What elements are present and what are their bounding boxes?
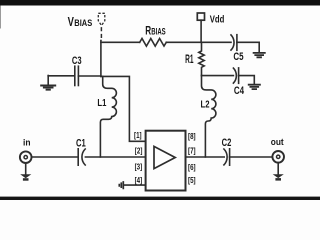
- svg-text:C4: C4: [234, 85, 245, 97]
- wire C1 to pin 2 with L1 junction: [85, 156, 145, 158]
- svg-text:R1: R1: [185, 53, 194, 66]
- capacitor C4: [233, 68, 238, 83]
- port out circle: [272, 151, 284, 163]
- ground for out port: [273, 163, 284, 181]
- svg-text:L2: L2: [201, 98, 210, 110]
- svg-text:[4]: [4]: [135, 176, 143, 185]
- ground for C4: [248, 85, 261, 89]
- op-amp block U1: [146, 131, 186, 191]
- ground for C3: [40, 76, 56, 90]
- svg-text:[8]: [8]: [188, 132, 196, 141]
- resistor R1: [199, 42, 204, 75]
- svg-text:C1: C1: [76, 137, 86, 149]
- wire VBIAS vertical down to C3 node: [100, 41, 102, 77]
- wire C4 to ground: [239, 76, 255, 84]
- wire bias node to RBIAS: [101, 41, 140, 43]
- power Vdd square symbol: [197, 13, 204, 20]
- svg-text:in: in: [23, 136, 31, 147]
- svg-text:[3]: [3]: [135, 163, 143, 172]
- label RBIAS: [145, 24, 166, 38]
- inductor L2: [202, 76, 216, 157]
- wire C5 to ground: [237, 42, 259, 52]
- label VBIAS: [68, 15, 93, 29]
- ground for in port: [20, 163, 31, 180]
- wire C3 to bias node: [78, 75, 101, 77]
- svg-text:BIAS: BIAS: [151, 27, 165, 37]
- wire R1 node to C4: [202, 75, 234, 77]
- wire C2 to out port: [230, 156, 273, 158]
- wire pin 4 to ground: [124, 184, 146, 186]
- svg-text:L1: L1: [97, 97, 106, 109]
- svg-text:C5: C5: [233, 51, 243, 63]
- capacitor C3: [75, 66, 79, 85]
- wire RBIAS to Vdd node to C5: [166, 41, 231, 43]
- capacitor C5: [231, 35, 237, 51]
- svg-text:BIAS: BIAS: [74, 17, 92, 28]
- ground for pin 4: [119, 181, 123, 189]
- capacitor C2: [224, 149, 230, 165]
- svg-text:C3: C3: [72, 55, 82, 67]
- svg-text:[7]: [7]: [188, 146, 196, 155]
- wire pin 7 to C2 with L2 junction: [186, 156, 225, 158]
- wire ground to C3: [48, 75, 74, 77]
- wire in port to C1: [32, 156, 78, 158]
- resistor RBIAS: [140, 39, 167, 47]
- svg-text:[5]: [5]: [188, 176, 196, 185]
- svg-text:Vdd: Vdd: [210, 15, 225, 26]
- port VBIAS dashed terminal symbol: [98, 13, 105, 25]
- svg-text:out: out: [271, 136, 284, 147]
- svg-text:C2: C2: [222, 137, 232, 149]
- svg-text:[6]: [6]: [188, 163, 196, 172]
- port in circle: [20, 151, 32, 163]
- svg-text:[2]: [2]: [135, 146, 143, 155]
- op-amp triangle: [154, 146, 175, 168]
- ground for C5: [253, 53, 266, 57]
- inductor L1: [100, 76, 116, 157]
- wire Vdd down to bias rail node: [200, 20, 202, 42]
- svg-text:[1]: [1]: [134, 131, 142, 140]
- wire dashed VBIAS lead: [100, 27, 102, 41]
- wire bias node right and down to pin 1: [101, 76, 146, 141]
- capacitor C1: [78, 149, 85, 165]
